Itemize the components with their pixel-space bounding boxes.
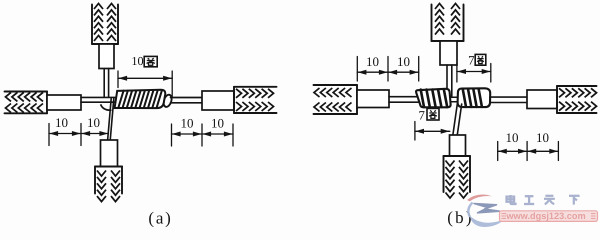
dimension tick A-right 1 — [171, 124, 173, 146]
dimension arrows A-left seg1 — [49, 133, 81, 135]
watermark text 天 — [544, 196, 555, 205]
braid hatching A-bottom — [97, 171, 106, 177]
stripped ferrule A-right — [202, 91, 234, 110]
dimension tick B-right 1 — [497, 142, 499, 161]
stripped ferrule B-top — [440, 41, 457, 65]
bare wire A-bottom (double line, slanted) — [108, 99, 112, 141]
insulated cable B-left (hatched sheath) — [314, 84, 358, 86]
insulated cable A-right (hatched sheath) — [234, 86, 277, 88]
svg-text:10: 10 — [397, 54, 410, 69]
svg-text:10: 10 — [366, 54, 379, 69]
dimension tick A-left 1 — [48, 124, 50, 146]
stripped ferrule A-left — [47, 95, 81, 110]
dimension tick B-left 2 — [387, 57, 389, 82]
dimension arrows B-left seg1 — [357, 71, 388, 73]
watermark text 工 — [524, 196, 534, 204]
insulated cable B-right (hatched sheath) — [557, 85, 597, 87]
svg-text:10: 10 — [55, 115, 68, 130]
dimension tick B-left 3 — [418, 57, 420, 82]
watermark logo red arc — [467, 195, 492, 202]
wrapped coil A (10 turns) around main wire — [162, 94, 173, 108]
watermark logo slate swoosh — [474, 204, 500, 213]
braid hatching B-bottom — [446, 161, 455, 167]
dimension tick (A coil right) — [171, 71, 173, 97]
dimension arrows B-right seg2 — [527, 150, 558, 152]
watermark logo bottom smile — [470, 216, 505, 228]
dimension tick B-right 3 — [557, 142, 559, 161]
insulated cable B-bottom (hatched sheath) — [443, 156, 445, 192]
dimension arrows A-right seg1 — [172, 133, 203, 135]
svg-text:7: 7 — [468, 54, 475, 68]
braid hatching B-left — [314, 88, 320, 97]
dimension tick B-coil-right 1 — [456, 64, 458, 83]
svg-text:10: 10 — [181, 116, 194, 131]
bare wire A-top (double line) — [103, 69, 105, 97]
svg-text:10: 10 — [131, 54, 143, 68]
svg-text:10: 10 — [211, 116, 224, 131]
dimension arrows A-right seg2 — [202, 133, 233, 135]
watermark text 下 — [569, 196, 580, 205]
branch wire A-bottom wrap hook — [101, 104, 112, 110]
insulated cable A-left (hatched sheath) — [5, 91, 48, 93]
braid hatching A-top — [94, 4, 103, 10]
braid hatching A-right — [236, 89, 242, 98]
dimension tick B-coil-left — [414, 122, 416, 141]
dimension arrows B-right seg1 — [498, 150, 527, 152]
braid hatching B-top — [435, 4, 444, 10]
dimension arrows B-left seg2 — [388, 71, 419, 73]
braid hatching B-right — [559, 88, 565, 97]
stripped ferrule A-top — [99, 44, 114, 69]
main wire between coils B — [447, 96, 459, 98]
svg-text:10: 10 — [87, 115, 100, 130]
insulated cable A-bottom (hatched sheath) — [94, 167, 96, 194]
dimension tick B-coil-right 2 — [490, 64, 492, 83]
stripped ferrule B-bottom — [450, 135, 466, 156]
stripped ferrule B-right — [527, 90, 557, 109]
dimension tick A-right 2 — [201, 124, 203, 146]
wrapped coil B-left (7 turns) — [416, 89, 451, 108]
bare wire B-left (double line) — [389, 96, 418, 98]
dimension arrows B-coil-right — [457, 71, 491, 73]
dimension tick B-right 2 — [526, 142, 528, 161]
svg-text:www.dgsj123.com: www.dgsj123.com — [505, 211, 585, 221]
watermark text 电 — [507, 195, 516, 204]
watermark logo blue upper crescent — [468, 203, 472, 218]
bare wire A-right (double line) — [171, 97, 203, 99]
dimension tick A-left 2 — [80, 124, 82, 146]
watermark url box end marks — [502, 214, 596, 219]
braid hatching A-left — [6, 92, 12, 101]
bare wire A-left (double line) — [81, 96, 116, 98]
dimension arrows B-coil-left — [415, 130, 450, 132]
stripped ferrule A-bottom — [101, 140, 118, 167]
dimension arrows A coil width — [118, 77, 172, 79]
bare wire B-right (double line) — [490, 96, 527, 98]
svg-text:(a): (a) — [148, 209, 172, 228]
svg-text:7: 7 — [418, 109, 425, 123]
dimension tick A-right 3 — [232, 124, 234, 146]
wrapped coil B-right (7 turns) — [458, 88, 491, 107]
svg-text:10: 10 — [506, 130, 519, 145]
dimension tick B-left 1 — [356, 57, 358, 82]
dimension arrows A-left seg2 — [81, 133, 109, 135]
dimension tick (A coil left) — [117, 71, 119, 88]
stripped ferrule B-left — [357, 90, 389, 108]
watermark url box — [500, 211, 598, 222]
insulated cable B-top (hatched sheath) — [431, 5, 433, 42]
svg-text:10: 10 — [536, 130, 549, 145]
insulated cable A-top (hatched sheath) — [91, 5, 93, 45]
svg-text:(b): (b) — [447, 208, 473, 227]
bare wire B-top (double line) — [446, 65, 448, 97]
bare wire B-bottom (double line, slanted) — [453, 104, 458, 136]
